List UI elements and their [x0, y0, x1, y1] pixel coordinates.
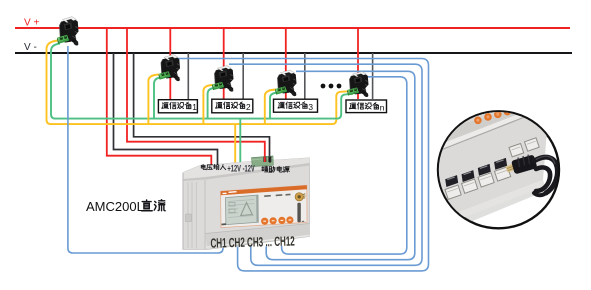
node box 通信设备2 — [212, 99, 253, 113]
svg-text:V -: V - — [24, 42, 37, 53]
wire red voltage input (pair A) — [107, 28, 212, 168]
inset plug ferrule — [506, 164, 517, 173]
inset meter top face — [436, 106, 524, 143]
meter top label 辅助电源 — [262, 166, 290, 172]
sensor CT2 — [158, 55, 180, 83]
inset port labels — [448, 171, 503, 190]
svg-text:2: 2 — [246, 102, 251, 112]
sensor CTn — [347, 72, 369, 98]
inset meter front face — [436, 117, 547, 221]
wire black drop to device box1 — [187, 53, 189, 99]
inset white ports upper-right row — [509, 138, 539, 157]
svg-text:V +: V + — [24, 17, 39, 28]
meter AMC200L body — [183, 158, 310, 250]
sensor CT4 — [275, 70, 297, 97]
meter top label 电压输入 — [201, 164, 226, 170]
wire blue CH2 from sensor CT2 — [176, 59, 429, 271]
wire red drop to device boxn — [357, 28, 359, 99]
meter buttons — [261, 218, 268, 225]
meter aux power terminal — [252, 156, 274, 167]
inset meter bottom chamfer — [436, 180, 545, 228]
wire green feed to meter -12V — [239, 119, 241, 164]
wire yellow feed to meter +12V — [234, 124, 236, 164]
svg-text:3: 3 — [308, 102, 313, 112]
wire black drop to device box2 — [242, 53, 244, 99]
wire yellow drop from sensor CT2 — [148, 75, 159, 125]
meter top label +12V -12V — [227, 163, 254, 174]
wire blue CH12 from sensor CTn — [282, 77, 407, 254]
node box 通信设备3 — [274, 99, 318, 112]
inset black ports row — [445, 158, 507, 187]
wire black drop to device box3 — [304, 53, 306, 99]
ellipsis dots — [321, 84, 326, 89]
meter display panel faceplate — [221, 185, 307, 227]
wire green drop from sensor CT3 — [208, 88, 215, 119]
node box 通信设备n — [346, 100, 387, 113]
wire yellow drop from sensor CT3 — [203, 85, 212, 124]
wire red drop to device box2 — [223, 28, 225, 99]
detail inset circle — [436, 100, 559, 236]
inset white ports bottom row — [445, 167, 511, 200]
wire red drop to device box1 — [169, 28, 171, 99]
meter SIM slot — [297, 203, 300, 223]
wire blue CH1 from sensor CT1 — [68, 46, 223, 253]
wire black voltage input (pair A) — [114, 53, 218, 166]
wire yellow sensor supply bus — [47, 41, 350, 125]
meter indicator labels — [264, 194, 290, 196]
inset plug body — [511, 154, 537, 174]
wire green drop from sensor CT2 — [154, 78, 161, 119]
wire blue CH4 from sensor CT4 — [266, 71, 415, 259]
sensor CT1 — [57, 17, 79, 47]
inset meter front edge chamfer — [436, 112, 526, 152]
wire blue CH3 from sensor CT3 — [229, 64, 422, 265]
inset meter right edge — [524, 104, 547, 131]
meter antenna connector — [295, 193, 303, 201]
wire yellow drop from sensor CT4 — [265, 90, 276, 125]
wire black drop to device boxn — [372, 53, 374, 99]
svg-text:CH1 CH2 CH3 ... CH12: CH1 CH2 CH3 ... CH12 — [210, 235, 295, 252]
meter channel label CH1 CH2 CH3 ... CH12 — [210, 235, 295, 252]
svg-text:+12V -12V: +12V -12V — [227, 163, 254, 174]
svg-text:n: n — [380, 102, 385, 112]
svg-text:1: 1 — [192, 102, 197, 112]
svg-text:AMC200L: AMC200L — [86, 199, 144, 214]
V- rail — [15, 52, 572, 54]
V+ rail — [15, 27, 570, 29]
inset buttons — [474, 117, 482, 125]
sensor CT3 — [212, 66, 234, 93]
wire green sensor supply bus — [51, 44, 353, 119]
node box 通信设备1 — [158, 100, 197, 113]
wire red aux power (pair B) — [127, 28, 265, 158]
wire black aux power (pair B) — [134, 53, 270, 157]
wire red drop to device box3 — [285, 28, 287, 99]
meter AMC200L label — [86, 199, 165, 214]
inset cable — [534, 157, 557, 193]
wire green drop from sensor CT4 — [270, 93, 278, 119]
